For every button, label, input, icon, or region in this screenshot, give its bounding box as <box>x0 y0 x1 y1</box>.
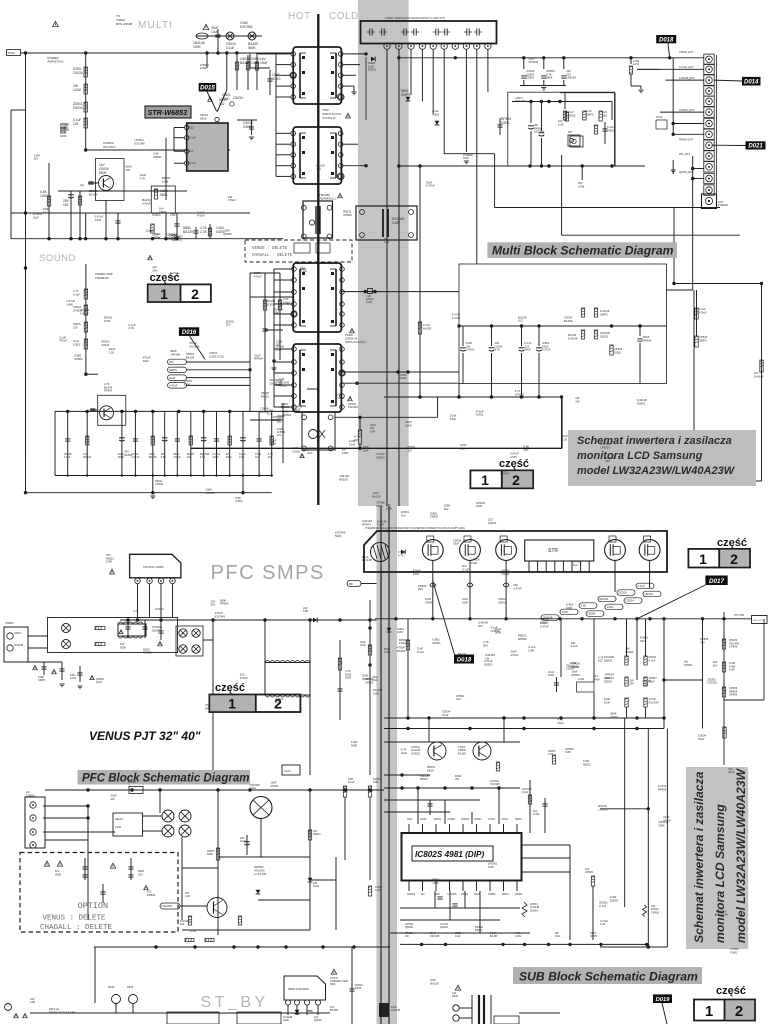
svg-text:C5034: C5034 <box>233 96 243 100</box>
svg-text:223: 223 <box>478 624 483 628</box>
svg-text:0.1uF: 0.1uF <box>417 650 424 654</box>
svg-text:monitora LCD Samsung: monitora LCD Samsung <box>713 804 727 943</box>
svg-text:1/4W: 1/4W <box>515 935 521 938</box>
svg-text:SMPS: SMPS <box>586 112 594 116</box>
svg-text:IC801: IC801 <box>235 499 243 503</box>
svg-text:102: 102 <box>63 203 69 207</box>
svg-text:R5021: R5021 <box>583 762 591 766</box>
svg-text:IC801: IC801 <box>432 112 440 116</box>
svg-text:2W: 2W <box>405 935 409 938</box>
svg-text:KSC945: KSC945 <box>189 345 200 349</box>
svg-text:1/2W: 1/2W <box>70 676 77 680</box>
svg-text:BA159: BA159 <box>423 326 432 330</box>
svg-text:1/4W: 1/4W <box>384 650 391 654</box>
svg-text:10uF: 10uF <box>211 30 219 34</box>
svg-text:D815: D815 <box>200 116 207 120</box>
svg-text:100K: 100K <box>397 630 403 634</box>
svg-text:ZD501: ZD501 <box>153 155 162 159</box>
svg-text:560K: 560K <box>120 645 126 649</box>
svg-text:2.2K: 2.2K <box>109 350 115 354</box>
svg-text:1: 1 <box>699 551 707 567</box>
svg-text:CP606: CP606 <box>729 645 738 649</box>
svg-text:0.47uF: 0.47uF <box>513 587 522 591</box>
svg-text:D018: D018 <box>659 37 674 43</box>
svg-text:10uF: 10uF <box>294 408 301 412</box>
svg-text:0.47uF: 0.47uF <box>169 384 178 388</box>
svg-text:MULTI: MULTI <box>138 20 173 31</box>
svg-text:SOUND: SOUND <box>39 253 76 264</box>
svg-text:D016: D016 <box>182 330 197 336</box>
svg-text:1/4W: 1/4W <box>66 302 73 306</box>
svg-text:ZD501: ZD501 <box>637 402 646 406</box>
svg-text:C5034: C5034 <box>501 572 510 576</box>
svg-text:BPS CN508: BPS CN508 <box>116 22 133 26</box>
svg-text:D014: D014 <box>744 80 759 86</box>
svg-text:PROTECTOR 5.5 TBD: PROTECTOR 5.5 TBD <box>49 1011 76 1015</box>
svg-text:10uF: 10uF <box>413 572 420 576</box>
svg-text:10uF: 10uF <box>283 1018 289 1022</box>
svg-text:2.2K: 2.2K <box>185 894 191 898</box>
svg-text:100K: 100K <box>193 45 202 49</box>
svg-text:Q5003: Q5003 <box>152 628 161 632</box>
svg-text:CHAGALL : DELETE: CHAGALL : DELETE <box>40 924 113 932</box>
svg-text:1/4W: 1/4W <box>269 442 276 446</box>
svg-text:10uF: 10uF <box>96 680 102 684</box>
svg-text:2.2K: 2.2K <box>384 241 389 244</box>
svg-text:IC801: IC801 <box>293 449 301 453</box>
svg-text:560K: 560K <box>345 676 351 680</box>
svg-text:C5034: C5034 <box>73 106 83 110</box>
svg-text:RP604: RP604 <box>254 357 263 361</box>
svg-text:C5034: C5034 <box>626 599 635 603</box>
svg-text:33uF: 33uF <box>222 97 230 101</box>
svg-text:Q5003: Q5003 <box>484 662 493 666</box>
svg-text:2.2K: 2.2K <box>548 752 554 756</box>
svg-text:SMPS: SMPS <box>590 935 597 938</box>
svg-text:25V: 25V <box>210 603 215 607</box>
svg-text:STR-W6853: STR-W6853 <box>148 108 188 117</box>
svg-text:SMPS: SMPS <box>365 681 373 685</box>
svg-text:2.2K: 2.2K <box>239 455 245 459</box>
svg-text:SMPS: SMPS <box>159 210 167 214</box>
svg-text:560K: 560K <box>99 171 108 175</box>
svg-text:RP604: RP604 <box>420 777 428 781</box>
svg-text:470uF: 470uF <box>510 653 518 657</box>
svg-text:4.7K: 4.7K <box>140 176 146 180</box>
svg-text:10uF: 10uF <box>442 713 449 717</box>
svg-text:0.1uF: 0.1uF <box>638 584 645 588</box>
svg-text:BA159: BA159 <box>372 495 381 499</box>
svg-text:PFC Block Schematic Diagram: PFC Block Schematic Diagram <box>82 773 249 785</box>
svg-text:BA159: BA159 <box>89 192 98 196</box>
svg-text:CHAGALL : DELETE: CHAGALL : DELETE <box>252 254 293 258</box>
svg-text:1/4W: 1/4W <box>578 677 585 681</box>
svg-text:LF5001: LF5001 <box>600 445 610 449</box>
svg-text:470uF: 470uF <box>283 300 291 304</box>
svg-text:470uF: 470uF <box>59 339 67 343</box>
svg-text:Q5003: Q5003 <box>515 893 523 896</box>
svg-text:33uF: 33uF <box>307 452 313 455</box>
svg-text:D815: D815 <box>108 985 115 989</box>
svg-text:AMP2(TDA): AMP2(TDA) <box>47 60 63 64</box>
svg-text:6.8K: 6.8K <box>303 609 309 613</box>
svg-text:1N4148: 1N4148 <box>718 913 728 917</box>
svg-text:ATL/UNC: ATL/UNC <box>103 145 116 149</box>
svg-text:R5021: R5021 <box>475 928 483 932</box>
svg-text:2W: 2W <box>111 797 116 801</box>
svg-text:Q5003: Q5003 <box>600 334 609 338</box>
svg-text:0.1uF: 0.1uF <box>599 904 606 908</box>
svg-text:IC801: IC801 <box>267 302 275 306</box>
svg-text:BA159: BA159 <box>430 981 439 985</box>
svg-text:6.8K: 6.8K <box>373 780 379 784</box>
svg-text:Q5003: Q5003 <box>223 232 232 236</box>
svg-text:RP604: RP604 <box>283 413 292 417</box>
svg-text:560K: 560K <box>160 193 169 197</box>
svg-text:KSC945: KSC945 <box>134 142 145 146</box>
svg-text:ZD501: ZD501 <box>128 780 136 784</box>
svg-text:ZD501: ZD501 <box>368 68 377 72</box>
svg-text:1/2W: 1/2W <box>190 929 197 933</box>
svg-text:SMPS: SMPS <box>600 312 608 316</box>
svg-text:100K: 100K <box>106 560 112 564</box>
svg-text:33uF: 33uF <box>407 818 413 821</box>
svg-text:ZD501: ZD501 <box>432 641 441 645</box>
svg-text:C5034: C5034 <box>566 667 575 671</box>
svg-text:560K: 560K <box>273 311 280 315</box>
svg-text:560K: 560K <box>351 744 358 748</box>
svg-text:100K: 100K <box>460 447 467 451</box>
svg-text:102: 102 <box>187 455 192 459</box>
svg-text:0.1uF: 0.1uF <box>522 790 529 794</box>
svg-text:33uF: 33uF <box>360 643 366 647</box>
svg-text:102: 102 <box>43 210 48 214</box>
svg-text:1kV: 1kV <box>268 455 273 459</box>
svg-text:D019: D019 <box>656 997 671 1003</box>
svg-text:33uF: 33uF <box>213 455 219 459</box>
svg-text:PFC SMPS: PFC SMPS <box>211 562 325 584</box>
svg-text:SPKR-B: SPKR-B <box>528 60 538 64</box>
svg-text:0.1uF: 0.1uF <box>348 780 355 784</box>
svg-text:RP604: RP604 <box>643 338 652 342</box>
svg-text:1kV: 1kV <box>316 167 321 171</box>
svg-text:Schemat inwertera i zasilacza: Schemat inwertera i zasilacza <box>692 771 706 943</box>
svg-text:4.7K: 4.7K <box>495 348 501 352</box>
svg-text:6.8K: 6.8K <box>370 429 376 433</box>
svg-text:1N4148: 1N4148 <box>568 336 578 340</box>
svg-text:RP604: RP604 <box>658 787 667 791</box>
svg-text:1kV: 1kV <box>421 893 426 896</box>
svg-text:LF5001_EXT: LF5001_EXT <box>679 108 695 112</box>
svg-text:IC801: IC801 <box>73 342 81 346</box>
svg-text:1/4W: 1/4W <box>593 678 600 682</box>
svg-text:RP604: RP604 <box>261 410 270 414</box>
svg-text:D815: D815 <box>127 985 134 989</box>
svg-text:1kV: 1kV <box>444 507 449 511</box>
svg-text:1kV: 1kV <box>277 434 282 437</box>
svg-text:VENUS : DELETE: VENUS : DELETE <box>252 247 288 251</box>
svg-text:1kV: 1kV <box>255 455 260 459</box>
svg-text:ZDP804: ZDP804 <box>254 865 264 869</box>
svg-text:BA159: BA159 <box>397 649 406 653</box>
svg-text:D017: D017 <box>709 578 725 585</box>
svg-text:Q5003: Q5003 <box>314 1018 322 1022</box>
svg-text:25V: 25V <box>483 643 488 647</box>
svg-text:1: 1 <box>481 472 489 488</box>
svg-text:1N4148: 1N4148 <box>14 643 24 647</box>
svg-text:223: 223 <box>180 922 185 926</box>
svg-text:25V: 25V <box>700 640 705 644</box>
svg-text:560K: 560K <box>335 534 342 538</box>
svg-text:Q5003: Q5003 <box>440 925 448 929</box>
svg-text:TDA8946J: TDA8946J <box>95 276 110 280</box>
svg-text:LF5001: LF5001 <box>461 818 470 821</box>
svg-text:AC: AC <box>26 790 30 794</box>
svg-text:102: 102 <box>598 659 603 663</box>
svg-text:SMPS: SMPS <box>515 818 522 821</box>
svg-text:1/4W: 1/4W <box>562 610 569 614</box>
svg-text:470uF: 470uF <box>699 310 707 314</box>
svg-text:KSC945: KSC945 <box>430 935 440 938</box>
svg-text:CP606: CP606 <box>585 870 593 874</box>
svg-text:LF5001: LF5001 <box>155 607 164 611</box>
svg-text:25V: 25V <box>226 323 231 327</box>
svg-text:SMPS: SMPS <box>401 93 411 97</box>
svg-text:0.47uF: 0.47uF <box>426 184 435 188</box>
svg-text:ZD501: ZD501 <box>498 600 507 604</box>
svg-text:1/2W: 1/2W <box>578 184 585 188</box>
svg-text:4.7K: 4.7K <box>128 326 134 330</box>
svg-text:IC801: IC801 <box>607 128 615 132</box>
svg-text:RP604: RP604 <box>605 676 614 680</box>
svg-text:0.1uF: 0.1uF <box>226 46 234 50</box>
svg-text:560K: 560K <box>207 852 213 856</box>
svg-text:0.47uF: 0.47uF <box>142 202 151 206</box>
svg-text:STR: STR <box>548 548 558 554</box>
svg-text:ZD501: ZD501 <box>502 893 510 896</box>
svg-text:R5021: R5021 <box>313 832 321 836</box>
svg-text:CP606: CP606 <box>343 213 352 217</box>
svg-text:LF5001: LF5001 <box>598 807 608 811</box>
svg-text:ST_BY: ST_BY <box>201 994 269 1011</box>
svg-text:2W: 2W <box>485 657 490 661</box>
svg-text:6.8K: 6.8K <box>529 648 535 652</box>
svg-text:1/4W: 1/4W <box>200 66 207 70</box>
svg-text:4.7K: 4.7K <box>133 609 139 613</box>
svg-text:CP606: CP606 <box>155 482 163 486</box>
svg-text:1kV: 1kV <box>34 157 39 161</box>
svg-text:100K: 100K <box>386 507 393 511</box>
svg-text:model LW32A23W/LW40A23W: model LW32A23W/LW40A23W <box>734 767 748 943</box>
svg-text:2.2K: 2.2K <box>200 230 208 234</box>
svg-text:33uF: 33uF <box>453 542 460 546</box>
svg-text:0.47uF: 0.47uF <box>80 312 89 316</box>
svg-text:SINK: SINK <box>330 983 336 986</box>
svg-text:THERMOMODULE(42/37/32/26/23/19: THERMOMODULE(42/37/32/26/23/19/17) INVER… <box>365 527 465 530</box>
svg-text:0.47uF: 0.47uF <box>131 455 139 459</box>
svg-text:BA159: BA159 <box>564 319 573 323</box>
svg-text:D815: D815 <box>421 818 427 821</box>
svg-text:RP604: RP604 <box>104 389 113 393</box>
svg-text:P519: P519 <box>8 51 15 55</box>
svg-text:0.1uF: 0.1uF <box>64 455 71 459</box>
svg-text:IC802S 4981 (DIP): IC802S 4981 (DIP) <box>415 850 484 859</box>
svg-text:BA159: BA159 <box>490 935 498 938</box>
svg-text:D815: D815 <box>452 995 459 998</box>
svg-text:GND: GND <box>463 156 469 160</box>
svg-text:0.1uF: 0.1uF <box>189 161 196 165</box>
svg-text:33uF: 33uF <box>557 721 564 725</box>
svg-text:CP606: CP606 <box>425 600 434 604</box>
svg-text:Q5003: Q5003 <box>488 521 497 525</box>
svg-text:C2725(-2): C2725(-2) <box>322 116 336 120</box>
svg-text:C5034: C5034 <box>399 377 407 380</box>
svg-text:25V: 25V <box>276 343 281 347</box>
svg-text:RP604: RP604 <box>600 597 609 601</box>
svg-text:VENUS PJT 32" 40": VENUS PJT 32" 40" <box>89 729 201 743</box>
svg-text:1N4148: 1N4148 <box>566 76 576 80</box>
svg-text:560K: 560K <box>248 46 257 50</box>
svg-text:2: 2 <box>191 286 199 302</box>
svg-text:10uF: 10uF <box>240 839 246 843</box>
svg-text:1kV: 1kV <box>401 514 406 518</box>
svg-text:2: 2 <box>274 696 282 712</box>
svg-text:25V: 25V <box>152 269 157 273</box>
svg-text:RELAY: RELAY <box>115 817 124 821</box>
svg-text:PFC-OUT: PFC-OUT <box>753 620 763 622</box>
svg-text:BA159: BA159 <box>339 478 348 482</box>
svg-text:SMPS: SMPS <box>38 678 46 682</box>
svg-text:Q5003: Q5003 <box>376 456 385 460</box>
svg-text:CN8001: CN8001 <box>26 795 36 798</box>
svg-text:1/2W: 1/2W <box>73 88 82 92</box>
svg-text:470uF: 470uF <box>228 198 236 202</box>
svg-text:1/2W: 1/2W <box>313 884 320 888</box>
svg-text:KSC945: KSC945 <box>162 904 173 908</box>
svg-text:LF5001: LF5001 <box>515 393 525 397</box>
svg-text:1N4148_EXT: 1N4148_EXT <box>679 76 695 80</box>
svg-text:KSC945: KSC945 <box>348 405 358 409</box>
svg-text:25V_EXT: 25V_EXT <box>679 152 691 156</box>
svg-text:KSC945: KSC945 <box>448 893 458 896</box>
svg-text:CP606: CP606 <box>684 663 693 667</box>
svg-text:RP604: RP604 <box>220 602 229 606</box>
svg-text:T5008: T5008 <box>345 333 353 337</box>
svg-text:LF5001: LF5001 <box>707 681 717 685</box>
svg-text:BD: BD <box>349 582 353 586</box>
svg-text:(A): (A) <box>80 183 84 187</box>
svg-text:B41-43A: B41-43A <box>516 99 527 103</box>
svg-text:R5021: R5021 <box>261 395 270 399</box>
svg-text:część: część <box>215 682 245 694</box>
svg-text:560K: 560K <box>276 348 283 352</box>
svg-text:IC801: IC801 <box>14 631 21 635</box>
svg-text:6.8K: 6.8K <box>161 455 167 459</box>
svg-text:2.2K: 2.2K <box>581 604 587 608</box>
svg-text:2W: 2W <box>630 682 635 686</box>
svg-text:BA159: BA159 <box>183 230 193 234</box>
svg-text:10uF: 10uF <box>604 700 610 704</box>
svg-text:33uF: 33uF <box>450 417 457 421</box>
svg-text:BA159: BA159 <box>186 355 195 359</box>
svg-text:ZD501: ZD501 <box>526 76 535 80</box>
svg-text:100K: 100K <box>405 424 412 428</box>
svg-text:1kV: 1kV <box>407 449 412 453</box>
svg-text:0.47uF: 0.47uF <box>542 348 551 352</box>
svg-text:25V: 25V <box>73 325 78 329</box>
svg-text:IC801: IC801 <box>243 125 252 129</box>
svg-text:0.1uF: 0.1uF <box>571 644 578 648</box>
svg-text:1N4148: 1N4148 <box>170 352 180 356</box>
svg-text:CP606: CP606 <box>74 357 83 361</box>
svg-text:470uF: 470uF <box>197 214 205 218</box>
svg-text:1/2W: 1/2W <box>95 218 102 222</box>
svg-text:102: 102 <box>518 319 523 323</box>
svg-text:33uF: 33uF <box>169 376 176 380</box>
svg-text:RP604: RP604 <box>518 637 527 641</box>
svg-text:ZD501: ZD501 <box>571 673 580 677</box>
svg-text:2W: 2W <box>170 274 175 278</box>
svg-text:100K: 100K <box>548 673 554 677</box>
svg-text:10uF: 10uF <box>401 751 408 755</box>
svg-text:BA159: BA159 <box>330 1008 338 1012</box>
svg-text:10uF: 10uF <box>260 61 268 65</box>
svg-text:10uF: 10uF <box>362 449 369 453</box>
svg-text:6.8K: 6.8K <box>565 750 571 754</box>
svg-text:100K: 100K <box>250 786 256 790</box>
svg-text:1kV: 1kV <box>171 238 176 242</box>
svg-text:COLD: COLD <box>329 11 359 22</box>
svg-text:R5021: R5021 <box>625 650 634 654</box>
svg-text:BA159: BA159 <box>281 405 290 409</box>
svg-text:470uF: 470uF <box>399 641 407 645</box>
svg-text:D815: D815 <box>427 769 434 773</box>
svg-text:25V: 25V <box>524 448 529 452</box>
svg-text:IC801: IC801 <box>501 121 510 125</box>
svg-text:223: 223 <box>138 872 143 876</box>
svg-text:2.2K: 2.2K <box>562 438 568 442</box>
svg-text:100K: 100K <box>658 823 665 827</box>
svg-text:BA159: BA159 <box>149 455 157 459</box>
svg-text:2: 2 <box>730 551 738 567</box>
svg-text:CN801 SMPS(42/37/32/26/23/19/: CN801 SMPS(42/37/32/26/23/19/17) LCD(TV/… <box>385 16 445 20</box>
svg-text:1N4148: 1N4148 <box>754 374 764 378</box>
svg-text:100K: 100K <box>60 134 67 138</box>
svg-text:25V: 25V <box>568 130 573 134</box>
svg-text:102: 102 <box>73 122 79 126</box>
svg-text:0.1uF: 0.1uF <box>300 269 307 273</box>
svg-text:560K: 560K <box>546 76 552 80</box>
svg-text:470uF: 470uF <box>270 784 278 788</box>
svg-text:D015: D015 <box>200 85 215 92</box>
svg-text:Q5003: Q5003 <box>610 898 619 902</box>
svg-text:OPTION: OPTION <box>78 901 109 911</box>
svg-text:IC801: IC801 <box>476 413 484 417</box>
svg-text:6.8K: 6.8K <box>30 1000 36 1004</box>
svg-text:ZD501: ZD501 <box>430 515 439 519</box>
svg-text:1kV: 1kV <box>189 149 194 153</box>
svg-text:470uF: 470uF <box>240 676 248 680</box>
svg-text:LC 15 40R: LC 15 40R <box>254 872 267 876</box>
svg-text:0.1uF: 0.1uF <box>656 115 663 119</box>
svg-text:0.1uF: 0.1uF <box>189 136 196 140</box>
svg-text:model LW32A23W/LW40A23W: model LW32A23W/LW40A23W <box>577 465 736 477</box>
svg-text:100K: 100K <box>184 382 191 386</box>
svg-text:470uF: 470uF <box>254 274 262 278</box>
svg-text:Q5003: Q5003 <box>604 658 613 662</box>
svg-text:CP606: CP606 <box>466 348 475 352</box>
svg-text:1/2W: 1/2W <box>115 825 122 829</box>
